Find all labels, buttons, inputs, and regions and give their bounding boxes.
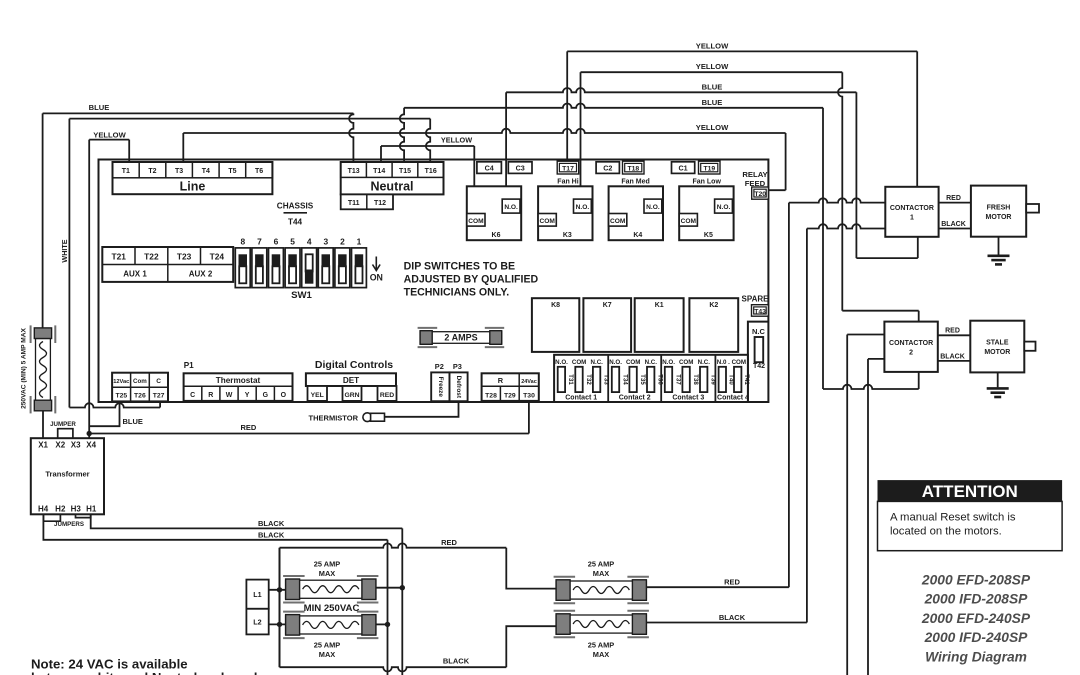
svg-text:BLACK: BLACK: [940, 354, 965, 361]
svg-text:Fan Med: Fan Med: [621, 178, 649, 185]
svg-text:YELLOW: YELLOW: [93, 130, 126, 139]
svg-text:R: R: [498, 376, 504, 385]
wire BLACK bus (block bottom) to fuse F5 input: [280, 626, 557, 671]
wire X4 stub to junction: [88, 434, 90, 439]
transformer T1 box: [31, 438, 104, 514]
svg-text:P3: P3: [453, 362, 462, 371]
pin X3: [71, 441, 81, 450]
svg-text:RED: RED: [945, 328, 960, 335]
svg-text:12Vac: 12Vac: [113, 379, 129, 385]
svg-text:Neutral: Neutral: [370, 180, 413, 194]
svg-text:R: R: [208, 392, 213, 399]
wire BLACK fuse F5 to CONTACTOR 1: [646, 224, 885, 622]
note 24VAC: [31, 656, 257, 675]
fuse F4 25A (fresh RED): [554, 577, 649, 603]
pin H2: [55, 505, 66, 514]
svg-text:Digital Controls: Digital Controls: [315, 359, 393, 371]
label RELAY FEED: [742, 170, 767, 188]
svg-text:T30: T30: [523, 392, 535, 399]
svg-text:T35: T35: [639, 374, 646, 385]
svg-text:P2: P2: [435, 362, 444, 371]
terminal C3: [508, 162, 532, 174]
label BLUE top-left: [89, 103, 110, 112]
label BLACK (H1): [258, 519, 285, 528]
svg-text:COM: COM: [626, 359, 640, 366]
svg-text:T16: T16: [425, 168, 437, 175]
svg-text:L1: L1: [253, 590, 261, 599]
svg-text:located on the motors.: located on the motors.: [890, 526, 1002, 538]
wire BLUE T25 to X4: [89, 401, 119, 426]
svg-text:T22: T22: [144, 251, 159, 261]
svg-text:AUX 2: AUX 2: [189, 270, 213, 279]
svg-text:250VAC (MIN) 5 AMP MAX: 250VAC (MIN) 5 AMP MAX: [21, 327, 28, 408]
PCB board outline: [99, 160, 769, 403]
relay K4: [609, 186, 663, 240]
connector P1 Thermostat: [184, 373, 293, 401]
svg-text:N.C.: N.C.: [645, 359, 658, 366]
svg-text:CONTACTOR: CONTACTOR: [890, 205, 934, 212]
svg-text:L2: L2: [253, 618, 261, 627]
svg-text:7: 7: [257, 237, 262, 247]
wire fuse to transformer X1: [42, 411, 44, 438]
label Fan Hi: [557, 178, 578, 185]
junction L1 node: [277, 587, 282, 592]
label BLUE (T25-X4): [123, 417, 143, 426]
svg-text:C: C: [156, 378, 161, 385]
svg-text:X2: X2: [55, 441, 65, 450]
svg-text:T17: T17: [562, 166, 574, 173]
terminal strip 12Vac/Com/C (T25-T27): [112, 373, 168, 402]
svg-text:N.C.: N.C.: [591, 359, 604, 366]
svg-text:K3: K3: [563, 232, 572, 239]
svg-text:T20: T20: [754, 191, 766, 198]
contact section Contact 1: [555, 359, 609, 401]
svg-text:2000 IFD-240SP: 2000 IFD-240SP: [924, 630, 1029, 645]
wire BLACK H1 to fuse junction: [91, 514, 403, 675]
svg-text:SPARE: SPARE: [742, 294, 770, 303]
svg-text:W: W: [226, 392, 233, 399]
svg-text:T34: T34: [621, 374, 628, 385]
svg-text:YELLOW: YELLOW: [696, 123, 729, 132]
svg-text:K4: K4: [633, 232, 642, 239]
terminal T19: [699, 161, 721, 174]
svg-text:T4: T4: [202, 168, 210, 175]
svg-text:Contact 4: Contact 4: [717, 394, 749, 401]
terminals T11 T12: [341, 194, 393, 209]
svg-text:N.O.: N.O.: [555, 359, 568, 366]
note DIP SWITCHES: [404, 260, 539, 298]
label model numbers: [921, 573, 1031, 665]
svg-text:Defrost: Defrost: [455, 376, 462, 399]
label YELLOW (fan hi): [696, 42, 729, 51]
svg-text:RED: RED: [380, 392, 394, 399]
wire YELLOW: T14 to K6 COM: [381, 146, 474, 214]
svg-text:JUMPERS: JUMPERS: [54, 521, 84, 528]
svg-text:25 AMP: 25 AMP: [588, 640, 614, 649]
svg-text:ON: ON: [370, 272, 383, 282]
label SPARE: [742, 294, 770, 303]
contact section Contact 3: [662, 359, 716, 401]
svg-text:RED: RED: [441, 538, 457, 547]
svg-text:C2: C2: [603, 163, 612, 172]
terminal C2: [596, 162, 619, 174]
svg-text:K8: K8: [551, 302, 560, 309]
ground (stale motor): [987, 372, 1009, 397]
svg-text:N.O.: N.O.: [609, 359, 622, 366]
svg-text:N.0 . COM: N.0 . COM: [717, 359, 746, 366]
svg-text:Y: Y: [245, 392, 250, 399]
svg-text:Fan Hi: Fan Hi: [557, 178, 578, 185]
svg-text:1: 1: [357, 237, 362, 247]
label YELLOW (K3 NO): [696, 62, 729, 71]
svg-text:COM: COM: [610, 218, 626, 225]
fuse F1 250VAC 5A body: [31, 325, 56, 413]
svg-text:JUMPER: JUMPER: [50, 421, 76, 428]
svg-text:COM: COM: [540, 218, 556, 225]
svg-text:T31: T31: [567, 374, 574, 385]
svg-text:X3: X3: [71, 441, 81, 450]
svg-text:CONTACTOR: CONTACTOR: [889, 340, 933, 347]
terminal L2: [246, 609, 268, 635]
svg-text:T32: T32: [585, 374, 592, 385]
label YELLOW left: [93, 130, 126, 139]
svg-text:MOTOR: MOTOR: [984, 349, 1010, 356]
svg-text:Thermostat: Thermostat: [216, 376, 261, 385]
wire BLACK contactor2 to stale motor: [938, 360, 971, 362]
svg-text:G: G: [263, 392, 269, 399]
svg-text:BLACK: BLACK: [941, 221, 966, 228]
svg-text:T37: T37: [674, 374, 681, 385]
wire BLACK H4 to fuse junction: [43, 514, 387, 675]
svg-text:N.O.: N.O.: [662, 359, 675, 366]
connector P2 Freeze: [431, 372, 449, 401]
wire BLACK contactor1 to fresh motor: [939, 228, 971, 230]
svg-text:O: O: [281, 392, 287, 399]
wire RED contactor2 to stale motor: [938, 334, 971, 336]
svg-text:N.O.: N.O.: [576, 204, 590, 211]
label 25 AMP MAX (F2): [314, 559, 340, 578]
pin X1: [38, 441, 48, 450]
svg-text:YELLOW: YELLOW: [696, 42, 729, 51]
svg-text:T33: T33: [602, 374, 609, 385]
svg-text:COM: COM: [679, 359, 693, 366]
wire YELLOW: K3 N.O. to CONTACTOR 2 top: [581, 72, 919, 321]
svg-text:6: 6: [274, 237, 279, 247]
terminal block T42 N.C.: [748, 322, 769, 402]
wire stale feed RED (to bottom): [847, 335, 884, 675]
label YELLOW (T14): [441, 136, 472, 145]
label WHITE: [60, 239, 69, 262]
relay K7: [583, 298, 631, 352]
terminal T18: [623, 161, 645, 174]
wire YELLOW fan-hi: T17 to CONTACTOR 1 top: [567, 51, 917, 186]
pin X2: [55, 441, 65, 450]
svg-text:25 AMP: 25 AMP: [314, 640, 340, 649]
svg-text:Contact 1: Contact 1: [565, 394, 597, 401]
connector DET digital controls: [306, 373, 397, 401]
pin H4: [38, 505, 49, 514]
chassis terminal T44: [277, 201, 314, 226]
svg-text:MAX: MAX: [593, 569, 609, 578]
svg-text:T28: T28: [485, 392, 497, 399]
svg-text:4: 4: [307, 237, 312, 247]
label YELLOW (T3 feed): [696, 123, 729, 132]
wire RED fuse F4 to CONTACTOR 1: [646, 198, 885, 587]
wire stale feed BLACK (to bottom): [868, 359, 884, 675]
label RED (bus): [441, 538, 457, 547]
relay K1: [635, 298, 684, 352]
label RED (F4): [724, 578, 740, 587]
relay K6: [467, 186, 521, 240]
svg-text:YELLOW: YELLOW: [696, 62, 729, 71]
svg-text:T15: T15: [399, 168, 411, 175]
terminal L1: [246, 580, 268, 609]
svg-text:T5: T5: [228, 168, 236, 175]
svg-text:T3: T3: [175, 168, 183, 175]
label ON arrow: [370, 257, 383, 283]
wire L2 to fuse F3: [269, 623, 286, 625]
svg-text:MOTOR: MOTOR: [986, 214, 1012, 221]
label BLACK (bus): [443, 657, 470, 666]
svg-text:2000 IFD-208SP: 2000 IFD-208SP: [924, 592, 1029, 607]
thermistor: [309, 413, 385, 422]
svg-text:2: 2: [340, 237, 345, 247]
label RED (stale): [945, 328, 960, 335]
label BLACK (F5): [719, 613, 746, 622]
label BLACK (H4): [258, 530, 285, 539]
svg-text:P1: P1: [184, 361, 194, 370]
svg-text:8: 8: [240, 237, 245, 247]
junction F2/H1/RED: [400, 585, 405, 590]
label P2: [435, 362, 444, 371]
label 25 AMP MAX (F3): [314, 640, 340, 659]
wire RED contactor1 to fresh motor: [939, 202, 971, 204]
svg-text:MAX: MAX: [319, 650, 335, 659]
svg-text:25 AMP: 25 AMP: [314, 559, 340, 568]
svg-text:DIP SWITCHES TO BE: DIP SWITCHES TO BE: [404, 260, 515, 272]
relay K3: [538, 186, 592, 240]
svg-text:A manual Reset switch is: A manual Reset switch is: [890, 512, 1016, 524]
svg-text:ADJUSTED BY QUALIFIED: ADJUSTED BY QUALIFIED: [404, 273, 539, 285]
label Fan Low: [693, 178, 722, 185]
wire BLUE: T15 to CONTACTOR 2 bottom: [400, 104, 919, 389]
svg-text:BLUE: BLUE: [702, 82, 723, 91]
terminal C1: [672, 162, 695, 174]
label BLACK (fresh): [941, 221, 966, 228]
svg-text:2000 EFD-208SP: 2000 EFD-208SP: [921, 573, 1031, 588]
label RED (to T30): [241, 423, 257, 432]
wire RED bus (block top) to fuse F4 input: [280, 543, 557, 588]
jumper H3-H1: [76, 514, 91, 517]
svg-text:Line: Line: [180, 180, 206, 194]
svg-text:C: C: [190, 392, 195, 399]
svg-text:X1: X1: [38, 441, 48, 450]
wire Defrost to thermistor: [384, 401, 459, 417]
svg-text:BLACK: BLACK: [719, 613, 746, 622]
svg-text:T38: T38: [692, 374, 699, 385]
svg-text:K5: K5: [704, 232, 713, 239]
svg-text:T1: T1: [122, 168, 130, 175]
svg-text:C1: C1: [678, 163, 687, 172]
label Digital Controls: [315, 359, 393, 371]
svg-text:YEL: YEL: [311, 392, 324, 399]
svg-text:T42: T42: [753, 363, 765, 370]
svg-text:DET: DET: [343, 376, 359, 385]
svg-text:AUX 1: AUX 1: [123, 270, 147, 279]
svg-text:ATTENTION: ATTENTION: [922, 482, 1018, 501]
stale motor M2: [970, 321, 1035, 373]
fuse F3 25A (L2): [283, 612, 378, 639]
svg-text:SW1: SW1: [291, 290, 312, 301]
svg-text:MAX: MAX: [593, 650, 609, 659]
wire fuse F2 to H1 junction: [376, 587, 402, 589]
svg-text:BLUE: BLUE: [89, 103, 110, 112]
contact section Contact 4: [717, 359, 750, 401]
svg-text:T41: T41: [743, 374, 750, 385]
wire YELLOW T3 to RELAY FEED T20: [183, 129, 785, 191]
terminal strip AUX (T21-T24): [102, 247, 233, 282]
svg-text:Fan Low: Fan Low: [693, 178, 722, 185]
svg-text:MAX: MAX: [319, 569, 335, 578]
label P3: [453, 362, 462, 371]
junction F3/H4: [385, 622, 390, 627]
svg-text:T39: T39: [710, 374, 717, 385]
pin H1: [86, 505, 97, 514]
pin H3: [71, 505, 82, 514]
wire BLUE: K6 N.O. to CONTACTOR 1 bottom: [506, 88, 918, 258]
svg-text:Transformer: Transformer: [45, 470, 89, 479]
svg-text:RED: RED: [946, 195, 961, 202]
svg-text:Contact 2: Contact 2: [619, 394, 651, 401]
label BLUE (T15): [702, 98, 723, 107]
terminal strip Neutral (T13-T16): [341, 162, 444, 194]
svg-text:H2: H2: [55, 505, 66, 514]
svg-text:BLACK: BLACK: [258, 530, 285, 539]
svg-text:T26: T26: [134, 392, 146, 399]
svg-text:between white and Neutral on b: between white and Neutral on board: [31, 670, 257, 675]
relay K5: [679, 186, 733, 240]
svg-text:TECHNICIANS ONLY.: TECHNICIANS ONLY.: [404, 286, 510, 298]
contact section Contact 2: [609, 359, 663, 401]
svg-text:T14: T14: [373, 168, 385, 175]
connector P3 Defrost: [450, 372, 468, 401]
terminal T43: [752, 305, 769, 317]
svg-text:BLUE: BLUE: [123, 417, 143, 426]
svg-text:Wiring Diagram: Wiring Diagram: [925, 650, 1027, 665]
svg-text:WHITE: WHITE: [60, 239, 69, 262]
svg-text:YELLOW: YELLOW: [441, 136, 472, 145]
svg-text:H3: H3: [71, 505, 82, 514]
terminal strip R/24Vac (T28-T30): [482, 373, 539, 401]
label JUMPERS: [54, 521, 84, 528]
svg-text:STALE: STALE: [986, 340, 1009, 347]
svg-text:N.O.: N.O.: [717, 204, 731, 211]
contactor 2: [884, 322, 937, 372]
svg-text:T6: T6: [255, 168, 263, 175]
attention box: [878, 480, 1063, 551]
svg-text:T36: T36: [657, 374, 664, 385]
svg-text:25 AMP: 25 AMP: [588, 559, 614, 568]
svg-text:2000 EFD-240SP: 2000 EFD-240SP: [921, 611, 1031, 626]
wire WHITE neutral: down left side to T27 and across to T16: [69, 119, 430, 408]
svg-text:1: 1: [910, 215, 914, 222]
terminal strip Line (T1-T6): [113, 162, 273, 194]
svg-text:T21: T21: [111, 251, 126, 261]
svg-text:2 AMPS: 2 AMPS: [444, 333, 477, 343]
DIP switch SW1: [235, 237, 366, 301]
svg-text:T23: T23: [177, 251, 192, 261]
contact strip outline: [554, 355, 748, 402]
svg-text:T44: T44: [288, 217, 303, 226]
svg-text:GRN: GRN: [344, 392, 359, 399]
wire fuse F3 to H4 junction: [376, 623, 388, 625]
svg-text:Com: Com: [133, 378, 147, 385]
junction L2 node: [277, 622, 282, 627]
svg-text:MIN 250VAC: MIN 250VAC: [304, 603, 360, 614]
label BLUE (K6 NO): [702, 82, 723, 91]
relay K2: [689, 298, 738, 352]
svg-text:C4: C4: [485, 163, 494, 172]
svg-text:Contact 3: Contact 3: [672, 394, 704, 401]
svg-text:H1: H1: [86, 505, 97, 514]
junction node X4: [87, 431, 92, 436]
svg-text:N.O.: N.O.: [646, 204, 660, 211]
svg-text:2: 2: [909, 350, 913, 357]
terminal T20: [752, 187, 769, 199]
svg-text:T19: T19: [703, 166, 715, 173]
svg-text:T13: T13: [348, 168, 360, 175]
svg-text:T18: T18: [627, 166, 639, 173]
svg-text:BLACK: BLACK: [443, 657, 470, 666]
svg-text:K1: K1: [655, 302, 664, 309]
svg-text:RELAY: RELAY: [742, 170, 767, 179]
svg-text:RED: RED: [724, 578, 740, 587]
svg-text:X4: X4: [86, 441, 96, 450]
svg-text:BLACK: BLACK: [258, 519, 285, 528]
svg-text:COM: COM: [681, 218, 697, 225]
terminal C4: [477, 162, 502, 174]
svg-text:C3: C3: [516, 163, 525, 172]
wire RED X4 junction to T30: [89, 401, 529, 434]
fuse F5 25A (fresh BLACK): [554, 611, 649, 637]
svg-text:T12: T12: [374, 200, 386, 207]
svg-text:Freeze: Freeze: [437, 377, 444, 398]
svg-text:T11: T11: [348, 200, 360, 207]
svg-text:FRESH: FRESH: [987, 205, 1011, 212]
wire BLUE from line (L1) top-left to T13: [43, 113, 354, 328]
svg-text:T27: T27: [153, 392, 165, 399]
label JUMPER: [50, 421, 76, 428]
svg-text:T2: T2: [148, 168, 156, 175]
svg-text:3: 3: [323, 237, 328, 247]
svg-text:N.C.: N.C.: [698, 359, 711, 366]
label Fan Med: [621, 178, 649, 185]
svg-text:CHASSIS: CHASSIS: [277, 201, 314, 210]
fuse F2 25A (L1): [283, 576, 378, 603]
label 250VAC (MIN) 5 AMP MAX: [21, 327, 28, 408]
svg-text:T29: T29: [504, 392, 516, 399]
svg-text:5: 5: [290, 237, 295, 247]
svg-text:T25: T25: [115, 392, 127, 399]
terminal T17: [557, 161, 579, 174]
svg-text:K2: K2: [709, 302, 718, 309]
svg-text:24Vac: 24Vac: [521, 379, 537, 385]
wire L1 to fuse F2: [269, 589, 286, 591]
label BLACK (stale): [940, 354, 965, 361]
label MIN 250VAC: [304, 603, 360, 614]
wire YELLOW from X4 junction up to T1: [89, 140, 129, 434]
relay K8: [532, 298, 579, 352]
